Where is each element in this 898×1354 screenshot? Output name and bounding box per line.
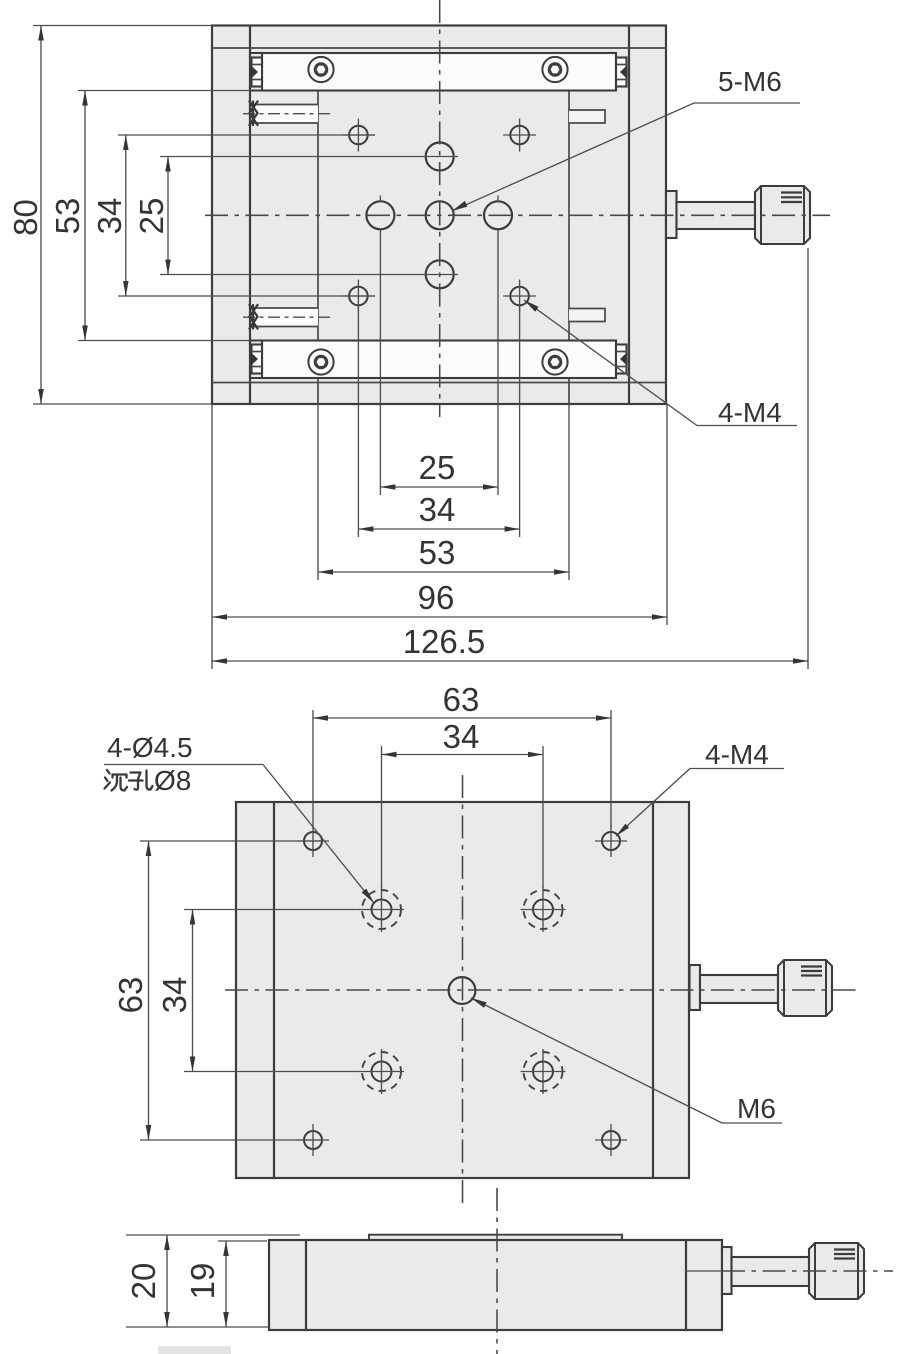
ext line 34-dim right column — [542, 746, 544, 888]
top view: M6 left hole vertical tick — [379, 196, 381, 202]
top view: knob shaft — [677, 202, 756, 229]
extension line from body right edge — [666, 404, 668, 625]
top view: upper-right stop bar — [569, 110, 605, 123]
top view: M4 tapped hole upper-right — [510, 126, 529, 145]
top view: M6 right hole vertical tick — [497, 196, 499, 202]
extension line M6 upper row — [160, 156, 458, 158]
leader 4-M4 (top view) — [524, 300, 797, 426]
extension line from plate left edge — [317, 404, 319, 580]
extension line M4 upper row — [118, 134, 375, 136]
top view: M6 tapped hole left — [366, 201, 394, 229]
top view: M4 tapped hole upper-left (4-M4 pattern) — [349, 126, 368, 145]
svg-text:25: 25 — [419, 449, 456, 486]
top view: upper-left bar spring clip — [250, 102, 258, 126]
svg-text:126.5: 126.5 — [403, 623, 486, 660]
bottom view: left wall line — [273, 802, 275, 1178]
top view: lower guide rail — [262, 341, 616, 379]
hanzi kong (hole) — [129, 771, 153, 790]
dimension 53 (vertical) — [84, 91, 86, 341]
svg-text:19: 19 — [184, 1263, 221, 1300]
extension line body bottom edge — [33, 403, 212, 405]
top view: M6 tapped hole bottom — [426, 260, 454, 288]
top view: rail screw upper-right — [542, 57, 567, 82]
top view: lower recess edge — [212, 382, 666, 384]
bottom view: knob flange — [690, 965, 701, 1010]
side view: left wall line — [305, 1240, 307, 1330]
top view: left wall inner edge — [249, 26, 251, 405]
extension line from M4 left column — [357, 306, 359, 537]
top view: upper rail left end clip — [252, 58, 263, 87]
svg-text:34: 34 — [443, 718, 480, 755]
top view: M6 tapped hole right — [484, 201, 512, 229]
dimension 34 (vertical) — [125, 135, 127, 296]
top view: rail screw lower-left — [308, 349, 333, 374]
extension line from M6 right column — [497, 230, 499, 495]
bottom view: M4 hole bottom-left — [304, 1131, 322, 1149]
top view: horizontal centerline — [205, 214, 830, 216]
top view: moving plate right edge — [568, 91, 570, 405]
top view: knob grip lines — [781, 191, 802, 193]
bottom view: knob grip lines — [801, 965, 822, 967]
svg-text:4-Ø4.5: 4-Ø4.5 — [107, 732, 193, 763]
bottom view: counterbore hole top-left (4-D4.5 / cbore D8) — [372, 900, 392, 920]
top view: lower rail left end clip — [252, 345, 263, 374]
dimension 96 (horizontal) — [212, 616, 667, 618]
svg-text:Ø8: Ø8 — [154, 765, 191, 796]
leader M6 to center hole — [471, 998, 722, 1123]
bottom view: horizontal centerline — [225, 989, 858, 991]
dimension 53 (horizontal) — [318, 571, 569, 573]
svg-text:4-M4: 4-M4 — [705, 739, 769, 770]
extension line from knob end — [807, 248, 809, 669]
top view: lower-left bar axis centerline — [243, 316, 331, 318]
side view: knob flange — [722, 1247, 732, 1294]
top view: rail screw upper-left — [308, 57, 333, 82]
top view: moving plate left edge — [317, 91, 319, 405]
top view: upper rail right end clip — [616, 58, 627, 87]
dimension 34 (vertical, bottom view) — [192, 910, 194, 1072]
ext line 63-dim top row — [140, 840, 322, 842]
hanzi chen (sink) — [105, 770, 128, 791]
top view: M4 tapped hole lower-left — [349, 287, 368, 306]
bottom view: knob body — [778, 960, 832, 1016]
ext line 20-dim top — [126, 1234, 300, 1236]
side view: horizontal centerline through knob — [722, 1270, 893, 1272]
side view: knob shaft — [732, 1257, 810, 1286]
dimension 25 (horizontal) — [380, 486, 498, 488]
ext line 63-dim right column — [610, 710, 612, 827]
top view: upper-left adjuster bar — [252, 105, 318, 124]
side view: base body outline — [269, 1240, 722, 1330]
dimension 63 (horizontal, bottom view) — [313, 717, 611, 719]
ext line 63-dim left column — [312, 710, 314, 827]
top view: knob face edges — [760, 187, 762, 244]
top view: M6 tapped hole top (5-M6 pattern) — [426, 143, 454, 171]
bottom view: vertical centerline — [462, 775, 464, 1207]
side view: knob face edges — [814, 1244, 816, 1299]
top view: upper-left bar axis centerline — [243, 113, 331, 115]
bottom view: knob shaft — [700, 975, 778, 1003]
extension line from M6 left column — [379, 230, 381, 495]
ext line 34-dim top row — [184, 909, 360, 911]
bottom view: counterbore hole top-right — [533, 900, 553, 920]
svg-text:80: 80 — [7, 199, 44, 236]
side view: moving plate top sliver — [369, 1235, 622, 1240]
top view: right wall inner edge — [628, 26, 630, 405]
svg-text:34: 34 — [91, 198, 128, 235]
side view: right wall line — [685, 1240, 687, 1330]
svg-text:63: 63 — [443, 681, 480, 718]
extension line from body left edge — [211, 404, 213, 669]
bottom view: counterbore hole bottom-left — [372, 1062, 392, 1082]
extension line upper rail inner edge — [78, 90, 250, 92]
svg-text:96: 96 — [418, 579, 455, 616]
ext line 34-dim left column — [381, 746, 383, 888]
extension line from M4 right column — [519, 306, 521, 537]
top view: upper recess edge — [212, 47, 666, 49]
top view: lower rail right end clip — [616, 345, 627, 374]
bottom view: M4 hole bottom-right — [602, 1131, 620, 1149]
dimension 25 (vertical) — [167, 157, 169, 275]
ext line 19-dim top — [218, 1240, 267, 1242]
extension line lower rail inner edge — [78, 340, 250, 342]
svg-text:34: 34 — [156, 977, 193, 1014]
top view: knob body — [755, 186, 810, 244]
dimension 34 (horizontal) — [358, 528, 519, 530]
faint partial object bottom-left — [158, 1346, 231, 1354]
ext line 20/19-dim bottom — [126, 1326, 269, 1328]
extension line M4 lower row — [118, 295, 375, 297]
svg-text:5-M6: 5-M6 — [718, 66, 782, 97]
dimension 19 (vertical, side view) — [225, 1241, 227, 1327]
side view: knob body — [809, 1243, 864, 1299]
top view: lower-left adjuster bar — [252, 308, 318, 327]
bottom view: right wall line — [652, 802, 654, 1178]
bottom view: M4 hole top-left (4-M4) — [304, 832, 322, 850]
svg-text:34: 34 — [419, 491, 456, 528]
dimension 63 (vertical, bottom view) — [148, 841, 150, 1140]
bottom view: counterbore hole bottom-right — [533, 1062, 553, 1082]
ext line 34-dim bottom row — [184, 1071, 360, 1073]
bottom view: knob face edges — [783, 961, 785, 1016]
label underline — [104, 764, 263, 766]
top view: vertical centerline — [439, 0, 441, 417]
dimension 80 (vertical) — [40, 26, 42, 405]
svg-text:M6: M6 — [737, 1093, 776, 1124]
svg-text:25: 25 — [133, 198, 170, 235]
extension line M6 lower row — [160, 274, 458, 276]
svg-text:4-M4: 4-M4 — [718, 397, 782, 428]
svg-text:20: 20 — [125, 1263, 162, 1300]
bottom view: center M6 hole — [449, 977, 476, 1004]
top view: lower-left bar spring clip — [250, 305, 258, 329]
leader 4-M4 to corner hole — [616, 769, 690, 837]
dimension 34 (horizontal, bottom view) — [382, 754, 544, 756]
top view: stage body outline — [212, 26, 666, 405]
leader 4-D4.5 to counterbore — [263, 765, 374, 904]
dimension 126.5 (horizontal) — [212, 660, 808, 662]
top view: lower-right stop bar — [569, 309, 605, 322]
side view: knob grip lines — [834, 1248, 855, 1250]
top view: knob flange — [666, 191, 677, 238]
top view: M4 tapped hole lower-right — [510, 287, 529, 306]
side view: vertical centerline — [496, 1188, 498, 1354]
svg-text:53: 53 — [419, 534, 456, 571]
top view: rail screw lower-right — [542, 349, 567, 374]
ext line 63-dim bottom row — [140, 1139, 322, 1141]
leader 5-M6 — [452, 103, 800, 211]
extension line body top edge — [33, 25, 212, 27]
top view: M6 tapped hole center — [426, 201, 454, 229]
dimension 20 (vertical, side view) — [166, 1235, 168, 1327]
bottom view: base plate outline — [236, 802, 689, 1178]
svg-text:63: 63 — [112, 977, 149, 1014]
svg-text:53: 53 — [49, 198, 86, 235]
bottom view: M4 hole top-right — [602, 832, 620, 850]
top view: upper guide rail — [262, 53, 616, 91]
side view: axis line in right wall — [686, 1270, 722, 1272]
extension line from plate right edge — [568, 404, 570, 580]
